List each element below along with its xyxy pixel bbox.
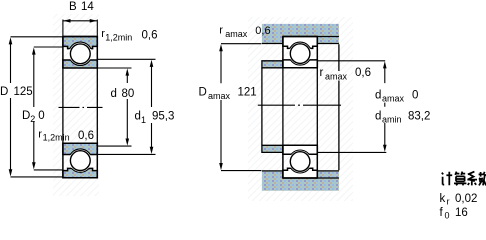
d1 arrows <box>150 60 154 67</box>
housing upper outline (right view) <box>262 37 339 44</box>
svg-text:B: B <box>69 1 77 13</box>
faint drawing-area hatch right <box>248 17 353 201</box>
label calculation factors (CJK, drawn) <box>442 172 486 186</box>
char xi <box>467 172 477 186</box>
D dimension line <box>11 37 63 177</box>
inner ring upper (right) <box>283 60 317 68</box>
centerline (left view) <box>59 106 103 108</box>
d1 dimension line <box>98 59 156 154</box>
svg-text:14: 14 <box>81 1 94 13</box>
svg-text:d: d <box>375 89 381 101</box>
svg-text:amax: amax <box>225 29 248 39</box>
ball upper (right) <box>290 44 310 64</box>
svg-text:0,6: 0,6 <box>78 130 94 142</box>
svg-text:0,6: 0,6 <box>355 67 371 79</box>
bearing lower (right view) <box>283 145 317 178</box>
bore silhouette (right view) <box>283 68 317 146</box>
svg-text:121: 121 <box>238 87 257 99</box>
centerline (right view) <box>258 104 341 106</box>
svg-text:r: r <box>320 67 324 79</box>
ball lower (right) <box>290 152 310 172</box>
svg-text:r: r <box>38 129 42 141</box>
B arrows <box>63 19 70 23</box>
svg-text:1,2min: 1,2min <box>43 132 70 142</box>
d arrows <box>126 68 130 75</box>
svg-text:amax: amax <box>382 93 405 103</box>
inner ring lower (right) <box>283 145 317 154</box>
side faces upper (left view) <box>63 37 97 69</box>
B extension lines <box>63 20 97 37</box>
svg-text:D: D <box>22 110 30 122</box>
char shu (clipped at right edge) <box>479 172 486 186</box>
da upper extension line <box>318 60 386 62</box>
svg-text:d: d <box>375 111 381 123</box>
svg-text:amax: amax <box>208 91 231 101</box>
D2 arrows <box>32 47 36 54</box>
svg-text:0,02: 0,02 <box>455 193 477 205</box>
svg-text:0,6: 0,6 <box>142 30 158 42</box>
side faces lower (left view) <box>63 143 97 178</box>
outer ring lower (left view) <box>63 168 97 177</box>
damax arrow <box>383 61 387 68</box>
svg-text:amin: amin <box>382 115 402 125</box>
svg-text:d: d <box>111 88 117 100</box>
B dimension line <box>63 20 97 22</box>
housing bore silhouette (right view) <box>338 44 340 170</box>
shaft shoulder upper (right view) <box>262 61 283 68</box>
housing lower (right view) <box>262 171 339 191</box>
svg-text:r: r <box>219 25 223 37</box>
svg-text:D: D <box>0 86 8 98</box>
outer ring upper (left view) <box>63 37 97 49</box>
shaft face silhouette (right view) <box>261 68 263 146</box>
svg-text:0: 0 <box>445 211 450 221</box>
inner ring lower (left view) <box>63 143 97 154</box>
raceway clearance upper (right) <box>289 42 312 65</box>
faint drawing-area hatch left <box>53 14 99 196</box>
damin arrow <box>383 145 387 152</box>
damin arrow line <box>384 123 386 149</box>
D2 dimension line <box>34 47 63 170</box>
D arrows <box>9 37 13 44</box>
housing upper (right view) <box>262 24 339 44</box>
svg-text:r: r <box>447 197 450 207</box>
svg-text:95,3: 95,3 <box>152 111 174 123</box>
bore silhouette lines (left view) <box>63 68 97 143</box>
housing lower outline (right view) <box>262 171 339 178</box>
raceway clearance lower (left view) <box>69 149 92 172</box>
char ji <box>442 172 452 185</box>
char suan <box>454 172 466 186</box>
svg-text:0,6: 0,6 <box>255 25 270 37</box>
bearing upper (right view) <box>283 37 317 68</box>
svg-text:0: 0 <box>38 110 44 122</box>
svg-text:d: d <box>135 111 141 123</box>
d dimension line <box>98 68 132 146</box>
svg-text:1,2min: 1,2min <box>105 32 132 42</box>
outer ring lower (right) <box>283 168 317 178</box>
ball upper (left view) <box>70 44 90 64</box>
da lower extension line <box>318 151 387 153</box>
svg-text:k: k <box>440 193 446 205</box>
ball lower (left view) <box>70 151 90 171</box>
shaft shoulder lower (right view) <box>262 145 283 152</box>
Damax arrows <box>219 44 223 51</box>
damax arrow line <box>384 65 386 107</box>
svg-text:2: 2 <box>30 114 35 124</box>
svg-text:16: 16 <box>455 207 468 219</box>
inner ring upper (left view) <box>63 60 97 68</box>
svg-text:amax: amax <box>325 72 348 82</box>
outer ring upper (right) <box>283 37 317 49</box>
svg-text:125: 125 <box>14 86 33 98</box>
svg-text:0: 0 <box>412 89 418 101</box>
Damax dimension line <box>221 44 261 171</box>
svg-text:83,2: 83,2 <box>408 111 430 123</box>
svg-text:80: 80 <box>122 88 135 100</box>
raceway clearance lower (right) <box>289 150 312 173</box>
svg-text:1: 1 <box>141 115 146 125</box>
raceway clearance upper (left view) <box>69 42 92 65</box>
svg-text:D: D <box>199 87 207 99</box>
